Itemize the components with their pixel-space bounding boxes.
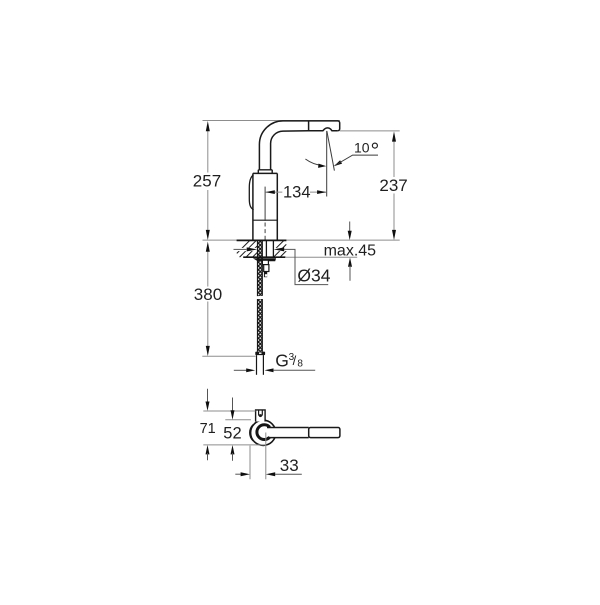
svg-text:max.45: max.45 <box>324 242 377 259</box>
33 dimension extension line left (circle edge) <box>249 446 251 480</box>
mounting nut under counter <box>253 258 276 261</box>
dimension 134: left line <box>265 191 282 193</box>
dimension 52 (outside arrows) <box>232 398 234 413</box>
leader line to 10 deg label <box>335 155 378 165</box>
svg-text:33: 33 <box>280 456 299 475</box>
spout: vertical tube outer edge <box>259 121 283 170</box>
extension line: spout outlet level (right) <box>340 130 400 132</box>
spout: bottom edge with aerator notch <box>283 128 338 131</box>
counter top extension line <box>203 239 400 241</box>
top view extension line: circle top <box>225 419 251 421</box>
top view extension line: circle bottom <box>203 444 266 446</box>
max45 dimension: lower arrow <box>348 258 352 267</box>
dimension 134: right line <box>310 191 327 193</box>
G3/8 dimension: left arrow <box>234 369 247 371</box>
svg-text:380: 380 <box>194 285 222 304</box>
vertical plumb reference line <box>326 131 328 197</box>
svg-text:237: 237 <box>379 176 407 195</box>
svg-text:G: G <box>275 350 289 370</box>
white break band across hatch for dim line <box>234 248 257 251</box>
lever shaft (top view) <box>267 428 309 438</box>
tube right of shank (through counter) <box>266 241 273 258</box>
faucet body outline <box>253 173 277 240</box>
counter hatch right group <box>274 241 286 258</box>
top view: spout stub tab <box>256 410 266 422</box>
counter top surface (thick) <box>237 239 287 241</box>
counter bottom reference line (right, thin) <box>286 256 357 258</box>
body section line <box>253 219 277 221</box>
max45 dimension: upper arrow <box>349 222 351 233</box>
dimension 237 line with arrows <box>393 141 395 178</box>
svg-text:52: 52 <box>223 424 241 442</box>
degree symbol <box>372 143 377 148</box>
dimension 134: left arrowhead <box>265 190 274 194</box>
collar between tube and body <box>258 170 272 174</box>
hose end nut <box>255 352 265 356</box>
angle arrowhead at stream line <box>334 160 342 166</box>
angle arc (left part) <box>305 159 322 166</box>
svg-text:8: 8 <box>297 358 303 369</box>
svg-text:/: / <box>293 353 297 368</box>
escutcheon outer circle <box>251 420 276 445</box>
G3/8 dimension: right arrow with leader under label <box>265 368 274 372</box>
extension line at hose end (380 bottom) <box>202 355 255 357</box>
connection tube G3/8 <box>257 355 264 375</box>
svg-text:257: 257 <box>193 172 221 191</box>
body centerline dashed part <box>264 223 266 241</box>
dia34 leader to label <box>284 249 328 284</box>
dimension 257 line with arrows <box>207 129 209 173</box>
dimension 71 (outside arrows) <box>207 389 209 403</box>
spout: horizontal section top edge <box>283 121 340 131</box>
dimension 380 line with arrows <box>207 250 209 287</box>
tab clip dark detail <box>259 414 262 417</box>
lever seen from front (oval on body left edge) <box>249 175 253 210</box>
extension line: spout top level <box>203 120 341 122</box>
body centerline solid part <box>264 187 266 221</box>
dimension 33 (outside arrows) <box>235 473 242 475</box>
fitting stack below nut <box>262 260 268 264</box>
top view extension line: tab top <box>203 410 255 412</box>
water stream line at 10 degrees <box>327 131 335 170</box>
svg-text:71: 71 <box>200 421 216 437</box>
hose break gap <box>257 296 264 299</box>
cartridge C-ring <box>257 425 270 440</box>
counter hatch left group <box>237 241 257 258</box>
dimension 134: right arrowhead <box>317 190 326 194</box>
lever paddle (top view) <box>309 428 340 438</box>
spout: vertical tube inner edge <box>271 131 283 170</box>
svg-text:134: 134 <box>283 183 311 201</box>
spout: separator line of pull-out end <box>308 121 310 131</box>
dia34 right arrowhead <box>274 247 285 251</box>
dia34 left arrow line <box>234 248 247 250</box>
threaded shank / braided hose upper part <box>258 241 263 352</box>
counter bottom surface (thick) <box>243 256 285 258</box>
dia34 left arrowhead <box>247 247 258 251</box>
tab inner U detail <box>259 410 263 416</box>
svg-text:Ø34: Ø34 <box>297 266 330 286</box>
angle arc arrowhead at plumb line <box>318 164 326 168</box>
33 dimension extension line right (center) <box>265 433 267 480</box>
svg-text:10: 10 <box>354 139 370 155</box>
left flange crescent arc <box>250 425 253 441</box>
